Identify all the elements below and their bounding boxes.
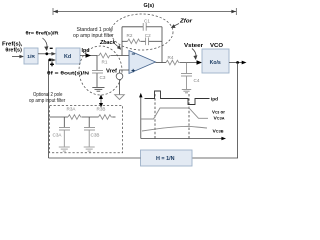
svg-text:VCO: VCO xyxy=(210,43,223,49)
ground under Vref xyxy=(115,95,125,100)
capacitor C1 xyxy=(143,23,162,31)
arrow double headed connector to optional filter xyxy=(99,95,103,108)
svg-text:op amp input filter: op amp input filter xyxy=(73,33,114,39)
svg-text:H = 1/N: H = 1/N xyxy=(156,156,175,162)
node G(s) span arrow xyxy=(53,8,236,15)
capacitor C3A xyxy=(59,117,70,147)
trace Vc3B xyxy=(142,126,207,131)
waveform plot x axis xyxy=(141,137,226,140)
wire Kd to R1 with arrow xyxy=(80,53,97,57)
svg-text:Vref: Vref xyxy=(106,69,117,75)
label plus sign xyxy=(50,62,54,66)
wire op-amp output to R4 xyxy=(156,62,167,64)
svg-text:G(s): G(s) xyxy=(144,3,155,9)
svg-text:θr= θref(s)/R: θr= θref(s)/R xyxy=(26,31,60,37)
ground under C3 xyxy=(92,88,104,92)
arrow Zback to input filter ellipse xyxy=(115,44,121,50)
wire Vref to ground xyxy=(119,80,121,95)
svg-text:C1: C1 xyxy=(144,19,150,24)
svg-text:R4: R4 xyxy=(168,55,174,60)
svg-text:Vsteer: Vsteer xyxy=(184,43,203,49)
svg-text:R1: R1 xyxy=(102,60,108,65)
dashed marker line 2 xyxy=(188,94,190,139)
block 1/R xyxy=(24,48,38,64)
wire feedback bottom left xyxy=(122,40,128,42)
capacitor C4 xyxy=(181,63,192,90)
svg-text:C3B: C3B xyxy=(91,133,100,138)
svg-text:R2: R2 xyxy=(127,33,133,38)
svg-text:Ipd: Ipd xyxy=(211,96,218,102)
resistor R3A xyxy=(68,115,99,120)
svg-text:θf = θout(s)/N: θf = θout(s)/N xyxy=(47,70,90,76)
svg-text:C3: C3 xyxy=(100,75,106,80)
trace Vc3 xyxy=(141,108,208,119)
svg-text:R3A: R3A xyxy=(67,107,77,112)
op-amp U1 xyxy=(129,51,156,74)
svg-text:θref(s): θref(s) xyxy=(5,48,22,54)
label minus sign xyxy=(50,47,53,49)
svg-text:R3B: R3B xyxy=(97,107,106,112)
capacitor C3 xyxy=(92,56,103,88)
block Ko/s VCO xyxy=(202,49,229,73)
wire H block to Kd feedback left xyxy=(49,157,141,159)
svg-text:C3A: C3A xyxy=(53,133,63,138)
resistor R3B xyxy=(99,115,116,120)
trace Ipd xyxy=(145,91,210,105)
wire optional filter rail xyxy=(50,116,69,118)
svg-text:1/R: 1/R xyxy=(27,54,35,60)
wire Vref source to op-amp plus input xyxy=(120,70,130,73)
wire feedback top xyxy=(122,26,143,28)
source Vref circle xyxy=(116,73,123,80)
svg-text:op amp input filter: op amp input filter xyxy=(29,98,66,104)
dashed box optional filter xyxy=(50,106,123,153)
wire input to 1/R xyxy=(12,55,24,59)
arrow Vsteer to wire xyxy=(192,49,197,61)
wire feedback right down to H block xyxy=(192,63,238,159)
capacitor C3B xyxy=(84,117,95,147)
arrow Zfor to feedback ellipse xyxy=(171,24,179,28)
svg-text:VC3 or: VC3 or xyxy=(212,110,225,115)
resistor R1 xyxy=(97,53,129,58)
wire 1/R to Kd xyxy=(38,52,56,56)
svg-text:VC3A: VC3A xyxy=(214,116,226,121)
capacitor C2 xyxy=(146,38,162,46)
ground under C3A xyxy=(59,147,70,151)
dashed ellipse feedback network xyxy=(111,14,173,50)
block H = 1/N xyxy=(141,150,193,166)
svg-text:Zback: Zback xyxy=(99,40,117,46)
wire VCO output with arrow xyxy=(229,61,247,65)
dashed ellipse standard 1 pole filter xyxy=(79,46,122,95)
svg-text:Kd: Kd xyxy=(64,54,71,60)
svg-text:Ko/s: Ko/s xyxy=(210,60,221,66)
dashed marker line 1 xyxy=(154,94,156,139)
waveform plot y axis xyxy=(139,93,142,139)
svg-text:VC3B: VC3B xyxy=(213,129,225,134)
svg-text:C4: C4 xyxy=(194,78,200,83)
svg-text:Zfor: Zfor xyxy=(179,19,193,25)
block Kd xyxy=(56,48,80,64)
ground under C4 xyxy=(182,90,191,93)
wire R4 to VCO with arrow xyxy=(180,60,202,64)
resistor R2 xyxy=(128,39,146,44)
wire feedback right leg xyxy=(161,27,163,63)
svg-text:Standard 1 pole: Standard 1 pole xyxy=(77,27,114,33)
wire op-amp inverting node to feedback network xyxy=(121,27,123,56)
arrow from theta-r label to wire xyxy=(43,38,49,51)
resistor R4 xyxy=(166,60,180,65)
svg-text:C2: C2 xyxy=(145,33,151,38)
ground under C3B xyxy=(84,147,95,151)
wire feedback into Kd plus input xyxy=(49,58,57,158)
